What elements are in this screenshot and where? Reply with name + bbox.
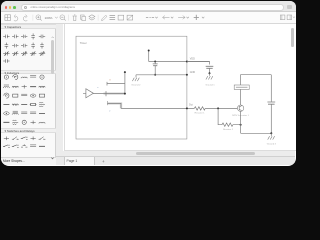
pin stub 2 (output pin) bbox=[106, 102, 108, 106]
svg-text:Ground 1: Ground 1 bbox=[205, 84, 215, 87]
op-amp U2 bbox=[85, 89, 93, 98]
svg-text:a: a bbox=[97, 87, 99, 89]
capacitor C3 bbox=[267, 101, 275, 103]
wire: op-amp input stub bbox=[83, 93, 86, 95]
node: C2 to ground bbox=[208, 72, 210, 74]
wire: right branch down to C3 bbox=[270, 75, 272, 102]
wire: bottom return bbox=[240, 133, 271, 135]
wire: collector up to fuse bbox=[239, 90, 241, 106]
svg-text:Ground 2: Ground 2 bbox=[131, 84, 141, 87]
wire: VDD to decoupling cap bbox=[186, 62, 209, 65]
wire: emitter down bbox=[239, 112, 241, 134]
resistor R2 bbox=[222, 123, 233, 126]
node: VDD pin on block edge bbox=[185, 61, 187, 63]
svg-text:Resistor 2: Resistor 2 bbox=[223, 128, 234, 131]
wire: base junction down to R2 bbox=[218, 109, 222, 125]
pin stub 3 (threshold) bbox=[106, 82, 108, 86]
svg-text:2: 2 bbox=[109, 111, 111, 113]
svg-text:GND: GND bbox=[189, 71, 195, 74]
svg-text:Timer: Timer bbox=[79, 41, 86, 45]
timer block U1 bbox=[76, 36, 187, 139]
node: emitter junction bbox=[239, 124, 241, 126]
resistor R1 bbox=[194, 107, 205, 110]
ground G3 symbol bbox=[270, 134, 272, 137]
wire: Out net bbox=[121, 108, 194, 110]
pin tick on output bbox=[105, 91, 107, 96]
ground G1 symbol bbox=[208, 73, 210, 76]
node: Out pin on block edge bbox=[185, 108, 187, 110]
node: ground junction bbox=[270, 133, 272, 135]
capacitor C2 (decoupling) bbox=[205, 66, 213, 68]
svg-text:VDD: VDD bbox=[189, 58, 194, 61]
node: base junction bbox=[217, 108, 219, 110]
transistor Q1 (NPN) bbox=[237, 105, 243, 111]
node: VDD stub end bbox=[147, 50, 149, 52]
svg-text:Resistor 1: Resistor 1 bbox=[194, 112, 205, 115]
node: C1 bottom junction bbox=[154, 74, 156, 76]
svg-text:Ground 3: Ground 3 bbox=[266, 143, 276, 146]
fuse F1 bbox=[234, 85, 249, 89]
wire: R1 to base node bbox=[205, 108, 237, 110]
svg-text:Out: Out bbox=[188, 104, 192, 107]
svg-text:3: 3 bbox=[109, 80, 111, 82]
wire: feedback vertical bbox=[123, 72, 125, 94]
wire: fuse to top rail bbox=[240, 75, 271, 85]
wire: pin3 to feedback bbox=[107, 83, 125, 85]
wire: out step (selected highlight) bbox=[107, 104, 121, 109]
node: C1 top junction bbox=[154, 61, 156, 63]
wire: VDD stub top bbox=[147, 51, 149, 62]
ground G2 symbol bbox=[135, 75, 137, 78]
node: GND pin on block edge bbox=[185, 74, 187, 76]
node: output junction bbox=[123, 93, 125, 95]
capacitor C1 bbox=[154, 62, 156, 64]
wire: GND rail bbox=[136, 74, 187, 76]
wire: VDD rail bbox=[148, 61, 209, 63]
wire: R2 to emitter bbox=[232, 124, 240, 126]
node: feedback top bbox=[123, 71, 125, 73]
wire: op-amp output (selected highlight) bbox=[103, 93, 124, 95]
svg-text:100%: 100% bbox=[44, 16, 52, 20]
